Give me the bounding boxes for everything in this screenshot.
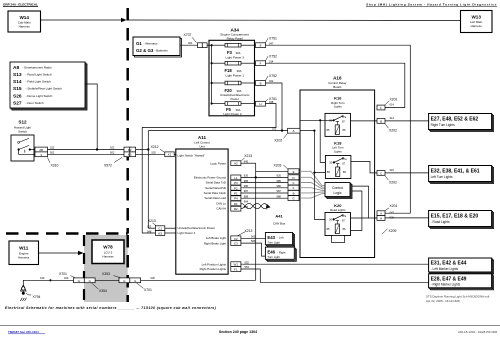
svg-text:E: E <box>260 44 262 48</box>
svg-text:P4: P4 <box>234 197 238 201</box>
svg-text:X1: X1 <box>168 153 172 157</box>
connector X213 pin P2 <box>231 185 241 190</box>
wire 022 F20 down to hazard feed line <box>266 83 283 131</box>
svg-text:Logic: Logic <box>333 191 341 195</box>
wire bus contact feed to K18 <box>320 120 333 162</box>
A11 internal labels <box>178 154 227 272</box>
svg-text:- Entertainment Radio: - Entertainment Radio <box>23 66 53 70</box>
connector X751 pin E fuse F3 output <box>256 36 278 47</box>
wire K16 output to pin B <box>351 120 378 122</box>
label X213 brake rows <box>238 229 253 236</box>
svg-text:X310: X310 <box>51 164 59 168</box>
svg-text:- Dome Light Switch: - Dome Light Switch <box>26 94 53 98</box>
svg-text:Board: Board <box>333 85 341 89</box>
lamp E27 E48 E52 E62 right turn lights <box>429 114 494 132</box>
svg-text:GRP 240 - ELECTRICAL: GRP 240 - ELECTRICAL <box>3 3 38 7</box>
cab wall boundary vertical dashed <box>126 8 129 234</box>
svg-text:Power: Power <box>230 97 239 101</box>
wire bus hazard to K18 K20 <box>313 131 325 220</box>
svg-text:G2 & G3: G2 & G3 <box>136 48 154 53</box>
svg-text:- Road Lights: - Road Lights <box>431 220 450 224</box>
svg-text:- Right Marker Lights: - Right Marker Lights <box>431 283 461 287</box>
connector X213 pin R2 <box>231 206 241 211</box>
connector X751 pin H fuse F5 output <box>256 97 278 106</box>
label X203 <box>274 163 289 169</box>
svg-text:G: G <box>134 279 136 283</box>
wire 010 ground to X701 <box>23 276 74 281</box>
svg-text:R1: R1 <box>234 202 238 206</box>
svg-text:A41: A41 <box>275 213 283 218</box>
svg-text:Harness: Harness <box>19 25 31 29</box>
svg-text:985: 985 <box>277 179 282 183</box>
svg-text:A2: A2 <box>234 162 238 166</box>
svg-text:X201: X201 <box>390 204 398 208</box>
svg-text:CAN Bus: CAN Bus <box>273 222 286 226</box>
svg-text:020: 020 <box>64 276 69 280</box>
lamp E32 E38 E41 E61 left turn lights <box>429 166 494 184</box>
svg-text:H: H <box>259 102 261 106</box>
svg-text:022: 022 <box>147 225 152 229</box>
svg-text:Left Position Lights: Left Position Lights <box>202 262 227 266</box>
wire 022 S12 to X572 <box>48 145 125 149</box>
svg-text:Unit: Unit <box>199 144 205 148</box>
ground X794 <box>20 280 26 301</box>
lamp E43 left turn light <box>265 233 294 247</box>
svg-text:926: 926 <box>277 174 282 178</box>
svg-text:C2: C2 <box>234 237 238 241</box>
wire 022 X572 to junction <box>136 149 149 151</box>
svg-text:F: F <box>260 62 262 66</box>
svg-text:X701: X701 <box>144 288 152 292</box>
svg-text:X794: X794 <box>33 295 41 299</box>
switch S12 title <box>14 120 31 134</box>
wire X737 to A34 bus <box>207 44 212 46</box>
svg-text:W1: W1 <box>234 263 239 267</box>
svg-text:G: G <box>292 197 294 201</box>
svg-text:C1: C1 <box>158 227 162 231</box>
wire 048 F5 to A11 pin H3 <box>142 104 276 234</box>
svg-text:85: 85 <box>327 170 330 174</box>
svg-text:964: 964 <box>244 200 249 204</box>
cab wall boundary horizontal dashed <box>6 232 128 235</box>
svg-text:Light Power 3: Light Power 3 <box>226 55 245 59</box>
connector X202 pin A hazard input <box>288 128 300 133</box>
svg-text:G1: G1 <box>136 41 142 46</box>
svg-text:85: 85 <box>327 128 330 132</box>
svg-text:Right Position Lights: Right Position Lights <box>200 267 227 271</box>
harness W78 LCU box <box>92 240 124 264</box>
left control unit A11 box <box>176 149 228 274</box>
svg-text:X752: X752 <box>269 54 277 58</box>
svg-text:87a: 87a <box>342 215 347 218</box>
svg-text:Electronic Power Ground: Electronic Power Ground <box>194 175 227 179</box>
wire 526 to E15 <box>385 217 429 219</box>
logic module control logic box <box>325 183 352 199</box>
lamp E46 right turn light <box>265 247 296 261</box>
switch S12 body <box>11 135 35 161</box>
svg-text:A: A <box>293 129 295 133</box>
svg-text:L1: L1 <box>234 176 238 180</box>
svg-text:R2: R2 <box>234 207 238 211</box>
svg-text:X752: X752 <box>269 74 277 78</box>
svg-text:E46: E46 <box>267 250 275 255</box>
svg-text:987: 987 <box>277 189 282 193</box>
svg-text:240-15-1304 - 19/28 PN=308: 240-15-1304 - 19/28 PN=308 <box>458 330 497 334</box>
svg-text:S15: S15 <box>13 86 22 92</box>
svg-text:553: 553 <box>245 265 250 269</box>
svg-text:B: B <box>260 82 262 86</box>
svg-text:Control: Control <box>332 186 343 190</box>
wire K16 contact feed from pin F <box>300 119 335 121</box>
connector X212 pin X1 <box>165 152 176 157</box>
fuse F18 30A Light Power 1 <box>212 61 256 77</box>
connector X213 pin W1 left position <box>231 262 241 267</box>
svg-text:986: 986 <box>244 184 249 188</box>
connector X213 pin C2 left brake <box>231 236 241 241</box>
connector X213 pin C1 <box>147 225 176 231</box>
svg-text:F1: F1 <box>234 268 238 272</box>
svg-text:014: 014 <box>269 59 274 63</box>
svg-text:Light Switch “Hazard”: Light Switch “Hazard” <box>178 154 206 158</box>
svg-text:566: 566 <box>251 239 256 243</box>
wire W78 internal ground link <box>95 279 119 281</box>
wire 988 to X203 pin G <box>241 194 288 198</box>
svg-text:A11: A11 <box>198 135 207 140</box>
svg-text:30: 30 <box>329 161 332 165</box>
lamp E28 E47 E49 right marker lights <box>429 274 494 290</box>
connector X203 pin column E D C F B G <box>288 169 299 201</box>
svg-text:S27: S27 <box>13 101 22 107</box>
svg-text:988: 988 <box>244 194 249 198</box>
svg-text:048: 048 <box>147 229 152 233</box>
svg-text:D: D <box>292 176 294 180</box>
svg-text:Left Brake Light: Left Brake Light <box>206 236 226 240</box>
svg-text:Logic Power: Logic Power <box>210 161 226 165</box>
svg-text:X353: X353 <box>102 272 110 276</box>
relay K20 socket stub <box>332 236 345 243</box>
connector X752 pin B fuse F20 output <box>256 74 278 85</box>
svg-text:Apr 22, 2005 - 16:10:1628: Apr 22, 2005 - 16:10:1628 <box>426 299 460 303</box>
svg-text:X213: X213 <box>148 219 156 223</box>
wire 001 G1 to X737 <box>180 41 198 45</box>
wire 502 X572 to X1 <box>136 150 165 154</box>
fuse F20 30A Unswitched Electronic Power <box>212 81 256 101</box>
svg-text:Light Power 2: Light Power 2 <box>223 112 242 116</box>
svg-text:552: 552 <box>245 260 250 264</box>
svg-text:F: F <box>380 106 382 110</box>
svg-text:988: 988 <box>277 194 282 198</box>
connector X202 pin B right turn output <box>377 116 397 132</box>
connector X201 pin A road light feed <box>377 204 398 216</box>
wire wall to W13 <box>129 19 461 22</box>
wire 945 logic power to X203 pin E <box>241 160 288 172</box>
connector X201 pin H road light output <box>377 216 394 221</box>
wire A34 internal bus <box>211 44 213 103</box>
wire K20 output to pin H <box>351 217 378 219</box>
relay K20 title <box>330 203 346 212</box>
left control unit A11 title <box>194 135 210 149</box>
svg-text:001: 001 <box>188 41 193 45</box>
relay K16 box <box>325 113 351 136</box>
harness W13 <box>461 11 493 33</box>
svg-text:Turn Light: Turn Light <box>267 255 280 259</box>
svg-text:047: 047 <box>390 210 395 214</box>
connector X737 <box>198 43 208 48</box>
svg-text:Right Turn Lights: Right Turn Lights <box>431 123 456 127</box>
wire hazard feed into K16 coil <box>300 130 316 132</box>
svg-text:W13: W13 <box>471 14 481 19</box>
svg-text:X203: X203 <box>274 163 282 167</box>
svg-text:E32, E38, E41, & E61: E32, E38, E41, & E61 <box>431 169 480 175</box>
wire CAN twisted pair to A41 <box>241 200 271 209</box>
svg-text:X209: X209 <box>389 229 397 233</box>
svg-text:Harness: Harness <box>18 255 30 259</box>
svg-text:X213: X213 <box>245 229 253 233</box>
svg-text:Light Power 1: Light Power 1 <box>226 73 245 77</box>
connector X213 pin F1 right position <box>231 267 241 272</box>
svg-text:Harness: Harness <box>102 254 114 258</box>
node junction 022 at hazard line <box>281 129 283 131</box>
svg-text:X201: X201 <box>390 97 398 101</box>
svg-text:30A: 30A <box>236 51 241 55</box>
svg-text:B: B <box>380 119 382 123</box>
svg-text:X751: X751 <box>269 36 277 40</box>
svg-text:86: 86 <box>343 128 346 132</box>
svg-text:X202: X202 <box>389 129 397 133</box>
label X701 left <box>59 272 75 278</box>
wire 553 right position to marker line <box>241 265 429 282</box>
svg-text:W78: W78 <box>103 244 113 249</box>
connector X213 pin H3 <box>147 229 176 235</box>
svg-text:Lights: Lights <box>334 105 342 109</box>
svg-text:2B: 2B <box>39 148 43 152</box>
battery alternator box G1 G2 G3 <box>133 37 182 57</box>
label X213 top <box>242 154 253 161</box>
svg-text:G: G <box>78 279 80 283</box>
page header right title <box>366 3 497 7</box>
svg-text:986: 986 <box>277 184 282 188</box>
wire ground bus vertical <box>255 163 257 280</box>
svg-text:B2: B2 <box>128 148 132 152</box>
wire 565 to E43 <box>241 234 266 238</box>
svg-text:Light Power 2: Light Power 2 <box>178 231 196 235</box>
label X737 <box>184 33 197 42</box>
connector X213 pin P4 <box>231 196 241 201</box>
svg-text:Road Lights: Road Lights <box>330 208 346 212</box>
svg-text:Lights: Lights <box>334 149 342 153</box>
svg-text:926: 926 <box>244 174 249 178</box>
footer rule <box>0 325 500 327</box>
wire 047 F3 to A16 pin A <box>266 45 411 213</box>
label X572 <box>104 158 122 168</box>
switch legend box A8 S13 S14 S15 S26 S27 <box>10 62 87 110</box>
svg-text:X202: X202 <box>274 139 282 143</box>
svg-text:G: G <box>89 279 91 283</box>
svg-text:Right Brake Light: Right Brake Light <box>204 241 226 245</box>
svg-text:C: C <box>292 181 294 185</box>
wire 315 to E32 <box>385 172 429 174</box>
svg-text:047: 047 <box>269 41 274 45</box>
relay K20 box <box>325 213 351 236</box>
svg-text:F: F <box>293 186 295 190</box>
svg-text:Electrical Schematic for machi: Electrical Schematic for machines with s… <box>5 306 217 310</box>
svg-text:985: 985 <box>244 179 249 183</box>
svg-text:Serial Data TxD: Serial Data TxD <box>206 181 226 185</box>
control relay board A16 title <box>328 76 347 90</box>
svg-text:- Door Switch: - Door Switch <box>26 101 44 105</box>
label X794 <box>26 293 41 299</box>
svg-text:30A: 30A <box>237 69 242 73</box>
connector X213 pin L1 <box>231 175 241 180</box>
label X202 left <box>274 133 287 142</box>
footer link left <box>8 330 45 334</box>
connector X202 pin C left turn output <box>377 168 397 184</box>
control relay board A16 box <box>300 90 375 258</box>
svg-text:87a: 87a <box>342 158 347 161</box>
label X213 at C1 H3 <box>148 219 156 226</box>
node junction 022 tap <box>147 148 149 150</box>
svg-text:- Batteries: - Batteries <box>155 49 169 53</box>
svg-text:- Right: - Right <box>277 250 285 254</box>
svg-text:W14: W14 <box>19 15 29 20</box>
svg-text:X354: X354 <box>99 289 107 293</box>
connector X310 pins 2B and 3 <box>35 147 48 157</box>
relay panel A34 box <box>209 40 255 116</box>
svg-text:Turn Light: Turn Light <box>267 240 280 244</box>
svg-text:P2: P2 <box>234 186 238 190</box>
connector X201 pin F turn power <box>377 97 398 110</box>
wire 926 to X203 pin D <box>241 174 288 178</box>
W78 harness gray zone <box>84 235 128 302</box>
svg-text:315: 315 <box>390 168 395 172</box>
relay K18 box <box>325 156 351 179</box>
svg-text:H3: H3 <box>158 232 162 236</box>
wire K18 output to pin C <box>351 162 377 173</box>
svg-text:- Left Marker Lights: - Left Marker Lights <box>431 267 459 271</box>
svg-text:- Stubble/Rear Light Switch: - Stubble/Rear Light Switch <box>26 87 63 91</box>
wire 552 left position to E31 <box>241 260 429 264</box>
svg-text:- Road Light Switch: - Road Light Switch <box>26 73 52 77</box>
svg-text:Switch: Switch <box>18 130 27 134</box>
svg-text:CAN Lo: CAN Lo <box>216 201 227 205</box>
connector X752 pin F fuse F18 output <box>256 54 278 65</box>
svg-text:X213: X213 <box>244 154 252 158</box>
svg-text:X701: X701 <box>59 272 67 276</box>
label X354 <box>92 283 108 293</box>
node junction ground bus at 926 row <box>255 176 257 178</box>
svg-text:Unswitched Electronic Power: Unswitched Electronic Power <box>178 226 215 230</box>
wire legend box to hazard feed <box>85 84 97 150</box>
svg-text:E27, E48, E52 & E62: E27, E48, E52 & E62 <box>431 117 479 123</box>
svg-text:X212: X212 <box>151 145 159 149</box>
label X353 <box>102 272 121 278</box>
svg-text:TM2187 Sec 240-1304: TM2187 Sec 240-1304 <box>8 330 39 334</box>
fuse F5 30A Light Power 2 <box>211 102 256 116</box>
svg-text:Shop (MH) Lighting System - Ha: Shop (MH) Lighting System - Hazard Turni… <box>366 3 497 7</box>
svg-text:Section 240 page 1304: Section 240 page 1304 <box>219 330 257 334</box>
svg-text:P1: P1 <box>234 192 238 196</box>
svg-text:Serial Data Load: Serial Data Load <box>204 196 226 200</box>
svg-text:022: 022 <box>272 126 277 130</box>
svg-text:30: 30 <box>329 218 332 222</box>
svg-text:A8: A8 <box>13 65 19 71</box>
svg-text:CAN Hi: CAN Hi <box>216 207 226 211</box>
svg-text:G: G <box>123 279 125 283</box>
fuse F3 30A Light Power 3 <box>212 43 256 59</box>
svg-text:STS Daytime Running Light Sch: STS Daytime Running Light Sch H9C6DGNA m… <box>426 295 490 299</box>
svg-text:022: 022 <box>110 145 115 149</box>
harness W14 <box>8 11 41 32</box>
note schematic file info <box>426 295 490 304</box>
svg-text:022: 022 <box>50 145 55 149</box>
wire 987 to X203 pin B <box>241 189 288 193</box>
svg-text:S14: S14 <box>13 79 22 85</box>
svg-text:- Alternator: - Alternator <box>144 42 158 46</box>
connector X353 X701 pins G G <box>119 278 141 283</box>
svg-text:020: 020 <box>151 276 156 280</box>
svg-text:E28, E47 & E49: E28, E47 & E49 <box>431 276 467 282</box>
label X212 <box>151 145 165 152</box>
svg-text:H: H <box>380 217 382 221</box>
svg-text:- Field Light Switch: - Field Light Switch <box>26 80 52 84</box>
wire 986 to X203 pin F <box>241 184 288 188</box>
lamp E31 E42 E44 left marker lights <box>429 258 494 274</box>
lamp E15 E17 E18 E20 road lights <box>429 211 494 229</box>
svg-text:A16: A16 <box>333 76 342 81</box>
svg-text:565: 565 <box>251 234 256 238</box>
harness W11 <box>9 241 39 265</box>
svg-text:X737: X737 <box>184 33 192 37</box>
wire 985 to X203 pin C <box>241 179 288 183</box>
connector X213 pin C3 right brake <box>231 241 241 246</box>
svg-text:Left Turn Lights: Left Turn Lights <box>431 175 453 179</box>
svg-text:87a: 87a <box>342 116 347 119</box>
svg-text:010: 010 <box>40 276 45 280</box>
svg-text:B: B <box>293 191 295 195</box>
svg-text:C: C <box>380 171 382 175</box>
bus A41 CAN Bus label <box>273 213 286 225</box>
connector X213 pin P3 <box>231 180 241 185</box>
connector X572 cab wall pins B2 M1 <box>124 147 136 157</box>
svg-text:Serial Data Clock: Serial Data Clock <box>204 191 227 195</box>
wire W11 arrow to W78 <box>39 251 84 255</box>
svg-text:E31, E42 & E44: E31, E42 & E44 <box>431 261 467 267</box>
svg-text:M1: M1 <box>128 153 132 157</box>
svg-text:P3: P3 <box>234 181 238 185</box>
svg-text:022: 022 <box>269 79 274 83</box>
svg-text:014: 014 <box>390 102 395 106</box>
svg-text:502: 502 <box>152 150 157 154</box>
svg-text:E15, E17, E18 & E20: E15, E17, E18 & E20 <box>431 214 479 220</box>
svg-text:85: 85 <box>327 227 330 231</box>
svg-text:502: 502 <box>50 150 55 154</box>
wire W14 to wall with arrowhead <box>41 18 127 22</box>
wire 020 marker ground run to E28 <box>141 276 256 280</box>
svg-text:- Left: - Left <box>277 236 284 240</box>
svg-text:S26: S26 <box>13 94 22 100</box>
svg-text:Harness: Harness <box>471 24 483 28</box>
svg-text:314: 314 <box>390 116 395 120</box>
svg-text:Serial Data RxD: Serial Data RxD <box>205 186 226 190</box>
svg-text:A: A <box>380 212 382 216</box>
W78 zone left dashed edge <box>83 235 85 302</box>
W78 zone right dashed edge <box>126 235 129 302</box>
connector X213 pin A2 logic power <box>231 161 241 166</box>
svg-text:987: 987 <box>244 189 249 193</box>
wire 022 trunk to A16 pin A <box>148 126 288 228</box>
svg-text:X202: X202 <box>389 181 397 185</box>
connector X213 pin P1 <box>231 191 241 196</box>
